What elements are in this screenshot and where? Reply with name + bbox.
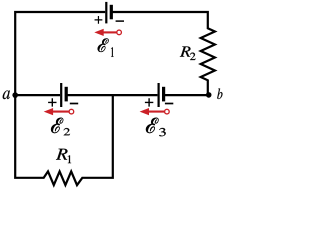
wire: middle branch E3 to node b [164,94,209,96]
battery E3 thick short plate [162,87,165,102]
plus sign at E3 [145,98,153,106]
circuit schematic: two-loop circuit, emf sources E1 E2 E3, resistors R1 R2, nodes a b [0,0,223,245]
wire: middle branch node a to battery E2 [15,94,60,96]
battery E2 thick short plate [65,87,68,102]
current arrow at E3 (red) [140,108,170,115]
minus sign at E1 [116,20,124,22]
emf label E3 script glyph [146,118,159,133]
node a junction dot [12,92,18,98]
minus sign at E3 [165,103,173,105]
current arrow at E1 (red, leftward, circle tail) [94,29,121,36]
battery E1 thick short plate [110,5,113,19]
wire: top-left, left side, bottom with resistor R1 zigzag, inner vertical riser [15,12,113,185]
plus sign at E2 [48,98,56,106]
wire: middle branch between E2 and E3 [66,94,157,96]
subscript 2 of E2 [64,128,70,135]
resistor label R2 [180,47,191,57]
subscript 2 of R2 [190,53,196,60]
node label a [3,91,10,100]
minus sign at E2 [70,103,78,105]
wire: top-right, right side with resistor R2 zigzag down to node b [111,12,215,95]
subscript 3 of E3 [159,128,166,136]
node label b [217,88,222,99]
subscript 1 of R1 [68,155,71,163]
subscript 1 of E1 [111,47,114,57]
battery E2 long plate [60,83,62,107]
current arrow at E2 (red) [44,108,74,115]
battery E1 long plate [105,2,107,24]
emf label E1 script glyph [98,39,109,52]
resistor label R1 [56,149,68,160]
emf label E2 script glyph [51,118,63,133]
battery E3 long plate [158,83,160,107]
plus sign at E1 [95,16,103,24]
node b junction dot [206,92,212,98]
